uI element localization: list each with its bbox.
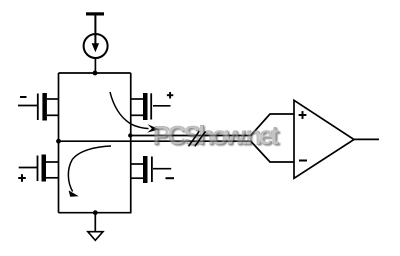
wire: left vertical bus — [58, 73, 60, 213]
svg-text:PCShow.net: PCShow.net — [153, 121, 280, 151]
wire: upper mid wire to op-amp fork — [130, 135, 250, 137]
wire: current source to tail rail — [94, 58, 96, 73]
wire: op-amp output — [354, 138, 379, 140]
wire: top tail rail — [59, 72, 131, 74]
watermark: PCShow.net (embossed base layers) — [152, 120, 281, 152]
node: left mid junction dot — [56, 139, 61, 144]
node: tail junction dot — [93, 71, 98, 76]
annotation arrow: current path top — [110, 92, 160, 133]
transistor M2 (top-right) — [131, 93, 171, 120]
node: ground junction dot — [93, 210, 98, 215]
annotation arrow: current path bottom — [68, 146, 111, 197]
label: plus input of M2 — [167, 92, 173, 99]
wire: bottom rail — [59, 212, 132, 214]
current source I1 — [84, 34, 108, 58]
wire: fork to op-amp plus input — [251, 114, 295, 136]
label: minus input of M4 — [166, 177, 175, 179]
wire: fork to op-amp minus input — [251, 141, 295, 162]
transistor M4 (bottom-right) — [131, 156, 171, 183]
wire: ground stem — [94, 213, 96, 232]
power supply bar VDD — [86, 12, 104, 15]
label: plus input of M3 — [18, 174, 26, 182]
op-amp U1 — [294, 100, 354, 178]
bus slash marker — [189, 131, 206, 146]
wire: lower mid rail to op-amp fork — [59, 140, 251, 142]
transistor M3 (bottom-left) — [19, 155, 59, 182]
wire: right vertical bus — [130, 73, 132, 213]
transistor M1 (top-left) — [18, 93, 59, 121]
node: right mid junction dot — [128, 133, 132, 137]
wire: VDD bar to current source — [94, 16, 96, 35]
label: minus input of M1 — [20, 96, 27, 98]
ground — [88, 232, 103, 241]
